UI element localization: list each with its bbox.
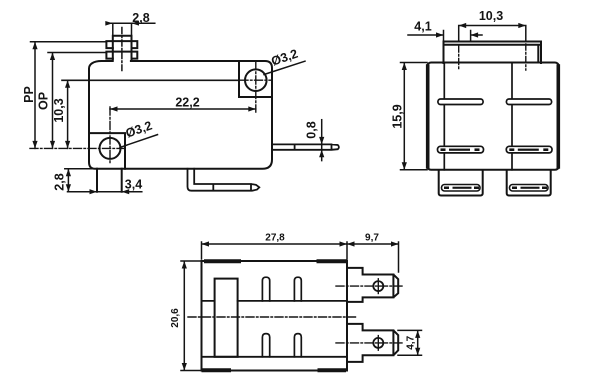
dimension 20,6	[181, 261, 200, 371]
svg-text:Ø3,2: Ø3,2	[269, 47, 299, 69]
dimension 27,8	[202, 242, 348, 259]
mounting hole top-right	[245, 69, 267, 91]
leader diameter 3,2 bottom-left	[120, 135, 158, 148]
dimension 4,7	[398, 330, 422, 355]
dimension OP	[48, 53, 106, 149]
hole centerlines top-right	[226, 62, 272, 113]
plunger upper flange	[106, 41, 137, 48]
dimension 10,3 end view	[459, 26, 526, 42]
bottom-left mounting boss	[90, 133, 125, 169]
plunger centerline	[121, 28, 123, 71]
bottom common terminal	[188, 169, 260, 191]
bottom view mid seam line	[202, 301, 348, 357]
dimension 9,7	[347, 242, 399, 272]
svg-text:4,1: 4,1	[414, 20, 431, 34]
svg-text:2,8: 2,8	[52, 173, 66, 190]
dimension 22,2	[110, 108, 256, 110]
hole centerlines bottom-left	[30, 107, 128, 164]
lower tab centerline	[336, 342, 404, 344]
svg-text:4,7: 4,7	[406, 335, 417, 349]
dimension 15,9 end view	[401, 63, 428, 170]
end view upper slot bars	[438, 99, 483, 105]
end view lower slot bars	[438, 146, 484, 153]
internal top seam line	[62, 79, 239, 81]
upper tab centerline	[336, 285, 404, 287]
dimension 3,4 leg width / leg bottom line	[68, 191, 142, 193]
dimension 4,1 end view	[408, 31, 482, 42]
bottom view slots	[262, 277, 301, 357]
svg-text:27,8: 27,8	[265, 233, 285, 244]
svg-text:3,4: 3,4	[125, 178, 142, 192]
plunger lower flange	[106, 52, 137, 59]
side view body outline	[89, 61, 272, 169]
svg-text:20,6: 20,6	[170, 308, 181, 328]
bottom view body	[202, 261, 348, 371]
svg-text:2,8: 2,8	[132, 11, 149, 25]
mounting hole bottom-left	[100, 138, 121, 159]
lower tab hole	[373, 338, 383, 348]
bottom view plunger pocket	[215, 279, 238, 357]
dimension PP	[31, 42, 107, 149]
svg-text:10,3: 10,3	[52, 98, 66, 122]
bottom tab contact bars	[442, 185, 481, 192]
dimension 2,8 leg height	[65, 169, 97, 192]
end view internal vertical edges	[444, 63, 512, 170]
dimension 0,8 pin	[321, 120, 323, 161]
upper terminal tab bottom view	[347, 268, 398, 302]
end view body	[427, 63, 559, 170]
right terminal pin	[272, 144, 339, 149]
bottom view thick rib segments top edge	[206, 259, 346, 263]
dimension 10,3 side	[67, 80, 69, 148]
dimension 2,8 plunger width	[106, 23, 155, 35]
lower terminal tab bottom view	[347, 324, 398, 362]
upper tab hole	[373, 281, 383, 291]
svg-text:OP: OP	[37, 92, 51, 110]
svg-text:0,8: 0,8	[305, 121, 319, 138]
end view hole centerlines dashed	[459, 44, 526, 70]
bottom view main centerline	[188, 316, 356, 318]
end view top plate	[444, 42, 542, 64]
mounting leg	[97, 169, 122, 192]
lower slot bar contacts	[441, 148, 549, 151]
svg-text:9,7: 9,7	[365, 233, 379, 244]
leader diameter 3,2 top-right	[264, 61, 305, 74]
end view thick side edges	[426, 66, 430, 167]
bottom view thick rib segments bottom edge	[204, 368, 345, 372]
svg-text:10,3: 10,3	[479, 9, 503, 23]
top-right mounting boss	[239, 61, 272, 97]
svg-text:PP: PP	[22, 86, 36, 103]
plunger shaft	[113, 36, 132, 61]
end view bottom tabs	[439, 170, 483, 196]
svg-text:22,2: 22,2	[175, 96, 199, 110]
svg-text:15,9: 15,9	[391, 104, 405, 128]
